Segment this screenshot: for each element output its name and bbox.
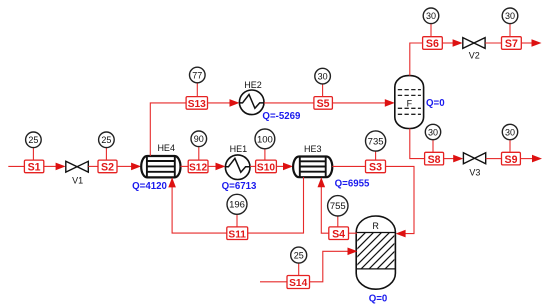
svg-text:HE3: HE3 xyxy=(304,144,322,154)
temperature circle 25 (S14) xyxy=(291,247,307,275)
wire S9 outlet with arrow xyxy=(520,155,542,163)
reactor R xyxy=(328,216,422,304)
svg-text:S3: S3 xyxy=(369,162,382,174)
stream box S13 xyxy=(186,97,207,110)
valve V2 xyxy=(463,38,485,61)
svg-text:25: 25 xyxy=(28,135,38,145)
svg-text:S14: S14 xyxy=(289,278,307,289)
temperature circle 25 (S2) xyxy=(99,132,115,160)
svg-text:735: 735 xyxy=(368,136,384,147)
svg-text:Q=6713: Q=6713 xyxy=(222,181,257,192)
svg-text:30: 30 xyxy=(505,127,515,137)
stream box S12 xyxy=(188,160,208,173)
wire S14 to reactor R with arrow xyxy=(310,248,358,282)
stream box S8 xyxy=(425,152,444,166)
wire S6 to V2 with arrow xyxy=(442,39,462,47)
stream box S9 xyxy=(502,152,521,166)
heat exchanger HE4 xyxy=(132,143,180,192)
svg-text:V2: V2 xyxy=(469,51,480,61)
wire F bottom to S8 xyxy=(410,129,425,159)
wire S5 to flash F with arrow xyxy=(332,99,394,107)
temperature circle 25 (S1) xyxy=(26,132,42,160)
svg-text:30: 30 xyxy=(428,127,438,137)
wire V3 to S9 xyxy=(486,158,502,160)
wire reactor R to S4 xyxy=(349,232,358,234)
svg-text:S8: S8 xyxy=(428,154,441,166)
stream box S7 xyxy=(502,37,522,51)
wire V2 to S7 xyxy=(485,42,501,44)
stream box S3 xyxy=(366,160,386,174)
temperature circle 90 xyxy=(191,131,207,160)
temperature circle 30 (S6) xyxy=(423,8,439,37)
svg-text:F: F xyxy=(407,99,413,109)
svg-text:Q=4120: Q=4120 xyxy=(132,181,167,192)
heat exchanger HE3 xyxy=(293,144,370,189)
wire S7 outlet with arrow xyxy=(521,39,541,47)
svg-text:S11: S11 xyxy=(228,229,246,240)
wire S8 to V3 with arrow xyxy=(444,155,464,163)
svg-text:Q=0: Q=0 xyxy=(369,293,388,304)
temperature circle 30 (S7) xyxy=(502,8,518,37)
temperature circle 30 (S8) xyxy=(425,124,440,152)
svg-text:HE2: HE2 xyxy=(244,80,262,90)
svg-text:25: 25 xyxy=(101,135,111,145)
wire HE4 top to S13 xyxy=(150,103,186,156)
stream box S6 xyxy=(423,37,443,51)
wire HE3 hot out through S11 to HE4 bottom with up arrow xyxy=(168,177,303,233)
wire feed into S1 xyxy=(8,165,24,167)
svg-text:30: 30 xyxy=(505,11,515,21)
stream box S2 xyxy=(98,160,117,174)
svg-text:S13: S13 xyxy=(188,99,206,110)
svg-text:100: 100 xyxy=(257,134,273,145)
stream box S14 xyxy=(287,276,310,290)
wire F top to S6 xyxy=(410,43,423,76)
temperature circle 30 (S9) xyxy=(502,124,517,152)
temperature circle 30 (S5) xyxy=(315,68,331,96)
svg-text:S4: S4 xyxy=(332,228,345,240)
stream box S11 xyxy=(227,227,248,240)
stream box S1 xyxy=(24,160,43,174)
flash drum F xyxy=(395,76,445,129)
stream box S10 xyxy=(256,160,277,173)
svg-text:S9: S9 xyxy=(505,154,518,166)
heat exchanger HE1 xyxy=(222,144,257,192)
svg-text:S5: S5 xyxy=(317,98,330,110)
svg-text:90: 90 xyxy=(194,134,204,144)
svg-text:755: 755 xyxy=(330,201,346,212)
temperature circle 196 xyxy=(227,194,247,227)
heat exchanger HE2 xyxy=(239,80,301,122)
wire V1 to S2 xyxy=(88,165,98,167)
wire HE4 to S12 xyxy=(181,165,189,167)
svg-text:196: 196 xyxy=(229,200,245,211)
wire S13 to HE2 with arrow xyxy=(208,99,240,107)
wire S1 to V1 with arrow xyxy=(44,163,66,171)
svg-text:S12: S12 xyxy=(189,163,207,174)
svg-text:Q=-5269: Q=-5269 xyxy=(262,111,301,122)
valve V1 xyxy=(66,161,89,185)
svg-text:S1: S1 xyxy=(28,162,41,174)
wire S2 to HE4 with arrow xyxy=(117,163,141,171)
svg-text:Q=0: Q=0 xyxy=(426,98,445,109)
svg-text:30: 30 xyxy=(426,11,436,21)
svg-text:S10: S10 xyxy=(257,163,275,174)
svg-text:S6: S6 xyxy=(426,38,439,50)
temperature circle 100 xyxy=(255,129,275,160)
svg-text:S2: S2 xyxy=(101,162,114,174)
wire S3 to reactor R with arrow xyxy=(386,166,415,237)
wire S10 to HE3 with arrow xyxy=(276,163,293,171)
stream box S5 xyxy=(314,97,333,111)
valve V3 xyxy=(463,153,485,178)
svg-text:25: 25 xyxy=(294,250,304,260)
wire S12 to HE1 with arrow xyxy=(208,163,226,171)
svg-text:HE1: HE1 xyxy=(230,144,248,154)
svg-text:77: 77 xyxy=(192,70,202,80)
svg-text:Q=6955: Q=6955 xyxy=(335,178,370,189)
svg-text:V1: V1 xyxy=(72,176,83,186)
wire S4 to HE3 bottom with up arrow xyxy=(318,177,329,233)
svg-text:30: 30 xyxy=(318,71,328,81)
svg-text:R: R xyxy=(372,221,379,231)
wire feed into S14 xyxy=(260,281,287,283)
wire HE2 to S5 xyxy=(264,102,314,104)
temperature circle 735 xyxy=(366,131,386,160)
temperature circle 77 xyxy=(190,67,206,96)
svg-text:V3: V3 xyxy=(469,167,480,177)
stream box S4 xyxy=(329,227,349,241)
wire HE1 to S10 xyxy=(250,165,256,167)
temperature circle 755 xyxy=(328,196,348,227)
svg-text:HE4: HE4 xyxy=(157,143,175,153)
svg-text:S7: S7 xyxy=(505,38,518,50)
wire HE3 to S3 xyxy=(332,165,365,167)
